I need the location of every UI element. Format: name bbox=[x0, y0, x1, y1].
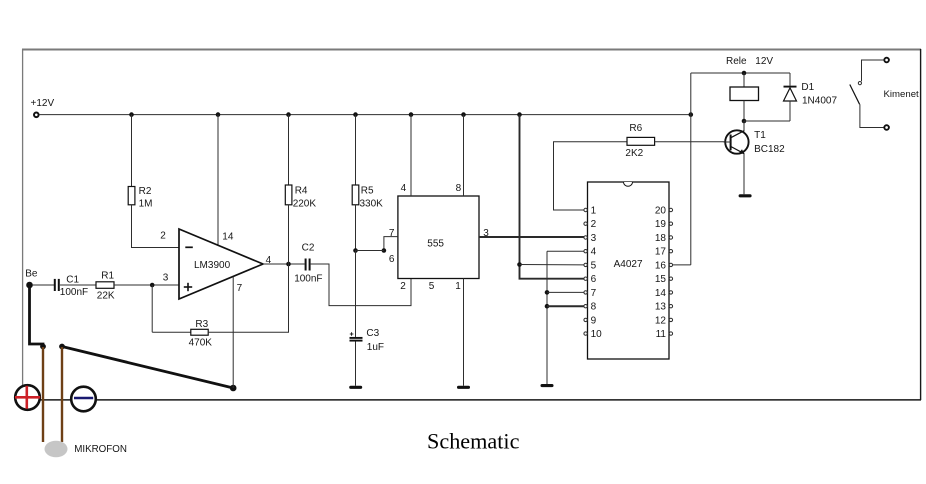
capacitor C3 (polarised) bbox=[350, 332, 363, 340]
wire relay top bbox=[691, 72, 790, 74]
svg-text:4: 4 bbox=[401, 183, 407, 194]
wire node6 to C3 bbox=[355, 251, 357, 338]
junction rail/relay branch bbox=[689, 112, 694, 117]
svg-text:BC182: BC182 bbox=[754, 144, 785, 155]
wire Be thick drop bbox=[30, 284, 44, 346]
svg-text:1N4007: 1N4007 bbox=[802, 96, 837, 107]
wire R2 to pin2 bbox=[132, 205, 180, 248]
wire T1 collector bbox=[743, 121, 745, 131]
svg-text:330K: 330K bbox=[360, 198, 384, 209]
svg-text:8: 8 bbox=[591, 302, 597, 313]
wire C3 to ground bbox=[355, 342, 357, 386]
svg-text:11: 11 bbox=[656, 329, 667, 340]
junction rail/555 pin4 bbox=[409, 112, 414, 117]
svg-text:5: 5 bbox=[429, 281, 435, 292]
wire lineB to pin7 bbox=[547, 291, 584, 293]
wire rail to R5 bbox=[355, 115, 357, 185]
wire R3 to output bbox=[208, 264, 288, 332]
op-amp U1 LM3900 bbox=[179, 229, 263, 299]
wire mic lead left (brown) bbox=[42, 347, 44, 442]
terminal Be bbox=[26, 282, 33, 289]
svg-text:19: 19 bbox=[655, 219, 667, 230]
wire switch top bbox=[862, 60, 885, 81]
wire to R3 bbox=[152, 331, 191, 333]
op-amp plus sign bbox=[184, 283, 192, 291]
svg-text:R4: R4 bbox=[295, 185, 308, 196]
svg-text:10: 10 bbox=[591, 329, 603, 340]
svg-text:555: 555 bbox=[427, 239, 444, 250]
wire +12V branch vertical bbox=[690, 73, 692, 265]
svg-text:7: 7 bbox=[389, 228, 395, 239]
svg-text:470K: 470K bbox=[189, 337, 213, 348]
pin circle 4027-1 bbox=[584, 208, 587, 211]
wire lineB to pin4 bbox=[547, 250, 584, 252]
wire rail to pin14 bbox=[217, 115, 219, 246]
svg-text:D1: D1 bbox=[801, 82, 814, 93]
mic minus terminal bbox=[71, 387, 96, 412]
pin circle 4027-2 bbox=[584, 222, 587, 225]
wire rail to R4 bbox=[288, 115, 290, 185]
junction R5/C3/pin6 bbox=[353, 248, 358, 253]
pin circle 4027-7 bbox=[584, 291, 587, 294]
terminal Kimenet top bbox=[884, 58, 889, 63]
junction lineB/pin8 bbox=[545, 304, 550, 309]
svg-text:3: 3 bbox=[163, 273, 169, 284]
svg-text:T1: T1 bbox=[754, 130, 766, 141]
capacitor C1 bbox=[55, 279, 59, 291]
wire 555 pin7 stub bbox=[384, 237, 398, 251]
svg-text:15: 15 bbox=[655, 274, 667, 285]
svg-text:7: 7 bbox=[591, 288, 597, 299]
svg-text:3: 3 bbox=[591, 233, 597, 244]
svg-text:5: 5 bbox=[591, 260, 597, 271]
wire 4027 pin1 loop bbox=[554, 142, 628, 210]
pin circle 4027-16 bbox=[669, 263, 672, 266]
switch pivot bbox=[858, 82, 861, 85]
junction rail/lineA bbox=[517, 112, 522, 117]
wire C1 to R1 bbox=[60, 284, 96, 286]
ground lineB bbox=[541, 384, 554, 387]
svg-text:14: 14 bbox=[655, 288, 667, 299]
diode D1 bbox=[784, 87, 797, 101]
wire switch bottom bbox=[860, 104, 884, 127]
wire Be to C1 bbox=[33, 284, 55, 286]
junction rail/555 pin8 bbox=[461, 112, 466, 117]
junction relay top bbox=[742, 71, 747, 76]
pin circle 4027-13 bbox=[669, 305, 672, 308]
wire R4 to output bbox=[288, 205, 290, 264]
wire relay coil bottom bbox=[743, 101, 745, 122]
svg-text:9: 9 bbox=[591, 315, 597, 326]
junction lineA/pin5 bbox=[517, 262, 522, 267]
svg-text:12V: 12V bbox=[755, 56, 773, 67]
resistor R4 bbox=[285, 185, 292, 205]
wire C2 to 555 pin2 bbox=[311, 264, 411, 306]
junction lineB/pin7 bbox=[545, 290, 550, 295]
svg-text:2K2: 2K2 bbox=[625, 148, 643, 159]
junction relay bottom bbox=[742, 119, 747, 124]
svg-text:16: 16 bbox=[655, 260, 667, 271]
ground 555 pin1 bbox=[457, 386, 470, 389]
wire T1 emitter to ground bbox=[743, 154, 745, 194]
relay K1 bbox=[730, 87, 759, 101]
svg-text:18: 18 bbox=[655, 233, 667, 244]
svg-text:C2: C2 bbox=[302, 243, 315, 254]
pin circle 4027-6 bbox=[584, 277, 587, 280]
ground C3 bbox=[349, 386, 362, 389]
svg-text:R3: R3 bbox=[195, 319, 208, 330]
svg-text:8: 8 bbox=[456, 183, 462, 194]
wire relay/diode bottom bbox=[744, 120, 790, 122]
svg-text:17: 17 bbox=[655, 247, 667, 258]
junction pin7/pin6 bbox=[382, 248, 387, 253]
svg-text:1: 1 bbox=[591, 205, 597, 216]
svg-text:1: 1 bbox=[455, 281, 461, 292]
IC U3 A4027 bbox=[588, 182, 670, 359]
svg-text:14: 14 bbox=[222, 231, 234, 242]
svg-text:Be: Be bbox=[25, 269, 38, 280]
svg-text:R5: R5 bbox=[361, 185, 374, 196]
terminal +12V bbox=[34, 113, 39, 118]
mic plus terminal bbox=[15, 385, 40, 410]
pin circle 4027-15 bbox=[669, 277, 672, 280]
wire rail to R2 bbox=[131, 115, 133, 187]
svg-text:Schematic: Schematic bbox=[427, 429, 520, 454]
svg-text:12: 12 bbox=[655, 315, 667, 326]
junction output/R4 bbox=[286, 262, 291, 267]
svg-text:LM3900: LM3900 bbox=[194, 260, 231, 271]
wire +12V rail bbox=[39, 114, 691, 116]
IC A4027 notch bbox=[624, 182, 633, 186]
svg-text:C1: C1 bbox=[66, 274, 79, 285]
capacitor C2 bbox=[306, 259, 310, 271]
svg-text:220K: 220K bbox=[293, 198, 317, 209]
wire 4027 pin16 out bbox=[673, 264, 691, 266]
pin circle 4027-14 bbox=[669, 291, 672, 294]
svg-text:Rele: Rele bbox=[726, 56, 747, 67]
junction rail/R5 bbox=[353, 112, 358, 117]
pin circle 4027-3 bbox=[584, 236, 587, 239]
pin circle 4027-9 bbox=[584, 318, 587, 321]
wire opamp pin7 drop bbox=[232, 277, 234, 388]
resistor R1 bbox=[96, 282, 114, 289]
wire lineA rail to pin6 bbox=[520, 115, 585, 279]
svg-text:2: 2 bbox=[400, 281, 406, 292]
wire R1 to node 3 bbox=[114, 284, 179, 286]
svg-text:2: 2 bbox=[160, 230, 166, 241]
pin circle 4027-8 bbox=[584, 305, 587, 308]
svg-text:7: 7 bbox=[237, 283, 243, 294]
wire rail to 555 pin8 bbox=[463, 115, 465, 196]
svg-text:Kimenet: Kimenet bbox=[884, 89, 920, 100]
junction node3 bbox=[150, 283, 155, 288]
junction mic left bbox=[40, 344, 46, 350]
pin circle 4027-11 bbox=[669, 332, 672, 335]
wire node3 down bbox=[151, 285, 153, 332]
transistor T1 BC182 bbox=[724, 130, 749, 154]
svg-text:R2: R2 bbox=[139, 186, 152, 197]
switch lever bbox=[850, 85, 860, 105]
svg-text:6: 6 bbox=[389, 254, 395, 265]
svg-text:22K: 22K bbox=[97, 291, 115, 302]
wire lineB to pin8 bbox=[547, 305, 584, 307]
wire diode bottom bbox=[789, 101, 791, 121]
wire relay coil top bbox=[743, 73, 745, 87]
pin circle 4027-17 bbox=[669, 250, 672, 253]
wire 555 pin1 to ground bbox=[463, 279, 465, 386]
svg-text:100nF: 100nF bbox=[294, 274, 322, 285]
pin circle 4027-19 bbox=[669, 222, 672, 225]
wire diode top bbox=[789, 73, 791, 86]
svg-text:1M: 1M bbox=[139, 198, 153, 209]
wire 555 pin6 stub bbox=[356, 250, 384, 252]
svg-text:100nF: 100nF bbox=[60, 287, 88, 298]
wire lineA to pin5 bbox=[520, 264, 585, 266]
pin circle 4027-20 bbox=[669, 208, 672, 211]
junction rail/R2 bbox=[129, 112, 134, 117]
wire R6 to T1 base bbox=[655, 141, 726, 143]
resistor R5 bbox=[352, 185, 359, 205]
pin circle 4027-10 bbox=[584, 332, 587, 335]
svg-text:6: 6 bbox=[591, 274, 597, 285]
svg-text:1uF: 1uF bbox=[367, 342, 384, 353]
svg-text:R1: R1 bbox=[101, 270, 114, 281]
border frame bbox=[22, 49, 921, 400]
pin circle 4027-5 bbox=[584, 263, 587, 266]
svg-text:20: 20 bbox=[655, 205, 667, 216]
junction rail/R4 bbox=[286, 112, 291, 117]
wire rail to 555 pin4 bbox=[410, 115, 412, 196]
svg-text:2: 2 bbox=[591, 219, 597, 230]
IC U2 555 bbox=[398, 196, 479, 279]
junction rail/pin14 bbox=[216, 112, 221, 117]
junction opamp pin7 / mic bbox=[230, 385, 237, 392]
resistor R2 bbox=[128, 187, 135, 205]
ground T1 bbox=[739, 194, 752, 197]
wire R5 to node6 bbox=[355, 205, 357, 251]
resistor R6 bbox=[627, 137, 655, 145]
terminal Kimenet bottom bbox=[884, 125, 889, 130]
pin circle 4027-18 bbox=[669, 236, 672, 239]
resistor R3 bbox=[191, 329, 208, 335]
svg-text:MIKROFON: MIKROFON bbox=[74, 444, 127, 455]
svg-text:A4027: A4027 bbox=[614, 259, 643, 270]
microphone body bbox=[45, 441, 68, 458]
pin circle 4027-12 bbox=[669, 318, 672, 321]
svg-text:R6: R6 bbox=[629, 123, 642, 134]
wire mic lead right (brown) bbox=[61, 347, 63, 442]
wire lineB vertical bbox=[546, 251, 548, 384]
svg-text:4: 4 bbox=[591, 247, 597, 258]
op-amp minus sign bbox=[185, 246, 193, 248]
svg-text:13: 13 bbox=[655, 302, 667, 313]
svg-text:+12V: +12V bbox=[31, 98, 55, 109]
pin circle 4027-4 bbox=[584, 250, 587, 253]
wire output bbox=[263, 263, 305, 265]
junction mic right bbox=[59, 344, 65, 350]
wire mic diagonal bbox=[62, 347, 233, 389]
wire 555 pin3 to 4027 pin3 bbox=[479, 236, 584, 238]
svg-text:C3: C3 bbox=[366, 328, 379, 339]
